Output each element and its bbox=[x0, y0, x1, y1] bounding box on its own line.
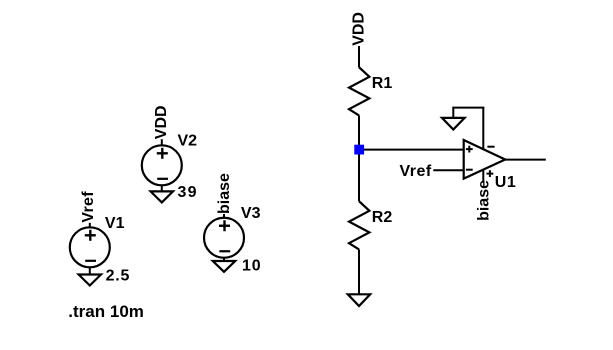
wire (node to op-amp +) bbox=[359, 149, 464, 151]
wire (Vref to op-amp -) bbox=[433, 169, 463, 171]
ground (above op-amp) bbox=[442, 118, 465, 130]
node junction (blue square) bbox=[354, 145, 364, 155]
svg-text:2.5: 2.5 bbox=[106, 268, 131, 285]
ground (below V3) bbox=[213, 258, 235, 272]
svg-text:10: 10 bbox=[242, 258, 261, 275]
resistor R1 bbox=[349, 67, 369, 115]
wire (R2 to ground) bbox=[358, 249, 360, 294]
svg-text:VDD: VDD bbox=[153, 105, 170, 139]
svg-text:biase: biase bbox=[216, 173, 233, 214]
wire (ground stub) bbox=[452, 108, 454, 118]
svg-text:Vref: Vref bbox=[400, 163, 432, 180]
wire (R1 to R2 through node) bbox=[358, 115, 360, 201]
voltage source V1 bbox=[70, 223, 110, 267]
svg-text:R2: R2 bbox=[372, 209, 393, 226]
svg-text:Vref: Vref bbox=[80, 191, 97, 223]
op-amp U1 bbox=[464, 140, 506, 179]
svg-text:VDD: VDD bbox=[351, 12, 368, 46]
svg-text:V3: V3 bbox=[241, 205, 261, 222]
svg-text:R1: R1 bbox=[372, 75, 393, 92]
ground (below V2) bbox=[151, 185, 173, 202]
ground (below R2) bbox=[348, 294, 370, 306]
wire (op-amp output) bbox=[505, 159, 546, 161]
svg-text:.tran 10m: .tran 10m bbox=[68, 302, 144, 321]
wire (VDD to R1) bbox=[358, 46, 360, 67]
ground (below V1) bbox=[79, 267, 101, 285]
wire (power pin to ground, horizontal) bbox=[452, 107, 484, 109]
svg-text:U1: U1 bbox=[495, 174, 516, 191]
resistor R2 bbox=[349, 201, 369, 249]
voltage source V3 bbox=[204, 214, 244, 258]
wire (V+ bottom power pin) bbox=[482, 170, 484, 182]
wire (V- top power pin) bbox=[482, 108, 484, 150]
voltage source V2 bbox=[142, 139, 182, 185]
svg-text:V1: V1 bbox=[105, 215, 125, 232]
svg-text:biase: biase bbox=[476, 180, 493, 221]
svg-text:V2: V2 bbox=[178, 132, 198, 149]
svg-text:39: 39 bbox=[178, 184, 198, 201]
